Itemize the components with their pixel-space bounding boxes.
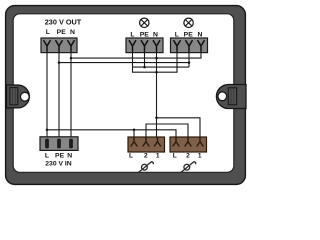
- svg-text:PE: PE: [57, 29, 67, 36]
- svg-text:230 V OUT: 230 V OUT: [45, 18, 82, 27]
- svg-text:L: L: [129, 152, 133, 159]
- svg-text:L: L: [130, 32, 134, 39]
- svg-text:L: L: [46, 29, 50, 36]
- svg-text:L: L: [175, 32, 179, 39]
- svg-text:2: 2: [144, 152, 148, 159]
- svg-text:N: N: [67, 153, 72, 160]
- svg-text:PE: PE: [184, 32, 194, 39]
- svg-text:L: L: [173, 152, 177, 159]
- svg-text:N: N: [70, 29, 75, 36]
- svg-text:1: 1: [156, 152, 160, 159]
- svg-text:230 V IN: 230 V IN: [45, 160, 72, 167]
- svg-text:1: 1: [198, 152, 202, 159]
- svg-text:N: N: [153, 32, 158, 39]
- svg-text:PE: PE: [55, 153, 65, 160]
- svg-text:L: L: [45, 153, 49, 160]
- svg-text:2: 2: [186, 152, 190, 159]
- svg-text:N: N: [198, 32, 203, 39]
- svg-text:PE: PE: [140, 32, 150, 39]
